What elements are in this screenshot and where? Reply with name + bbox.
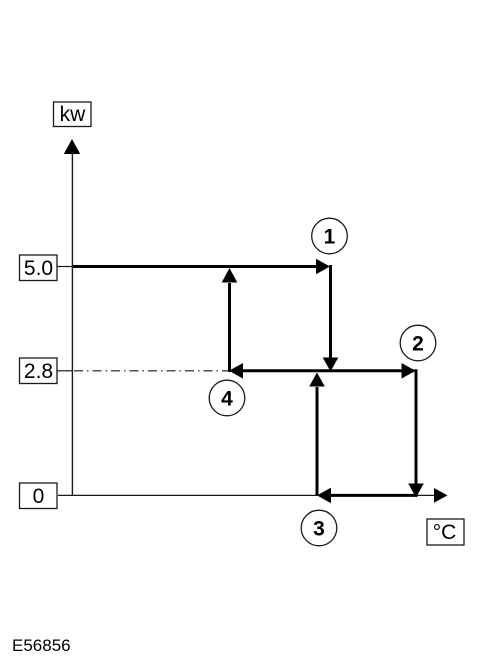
label box kw	[54, 102, 92, 127]
label box 5.0	[20, 255, 58, 281]
segment A: 5.0 level line to point 1	[72, 265, 317, 268]
svg-text:kw: kw	[60, 103, 87, 126]
svg-text:4: 4	[221, 388, 233, 411]
arrowhead right at point 2	[402, 363, 416, 379]
tick 2.8	[57, 370, 73, 372]
arrowhead up below 2.8 line	[309, 373, 325, 387]
segment C: 2.8 level line from point 2 to point 4	[242, 369, 414, 372]
node circle 2	[400, 325, 436, 361]
node circle 1	[312, 218, 348, 254]
svg-text:2.8: 2.8	[24, 360, 53, 383]
segment E: down from point 2 to x-axis	[415, 369, 418, 484]
arrowhead right at point 1	[316, 259, 330, 275]
svg-text:E56856: E56856	[12, 636, 71, 655]
label box 2.8	[20, 358, 58, 384]
svg-text:5.0: 5.0	[24, 257, 53, 280]
arrowhead up below 5.0 line	[222, 268, 238, 283]
segment B: down from point 1 to 2.8 line	[329, 265, 332, 358]
x-axis arrowhead	[434, 488, 448, 503]
segment G: x-axis run from point 2 to point 3	[331, 494, 418, 497]
svg-text:2: 2	[412, 333, 424, 356]
segment D: up from point 4 to 5.0 line	[228, 283, 231, 372]
svg-text:1: 1	[324, 226, 336, 249]
x-axis	[58, 494, 437, 496]
dash-dot line 2.8 level	[74, 370, 228, 372]
svg-text:3: 3	[313, 518, 325, 541]
svg-text:0: 0	[33, 485, 45, 508]
svg-text:°C: °C	[433, 521, 457, 544]
segment F: up from point 3 to 2.8 line	[316, 387, 319, 495]
arrowhead left at point 4	[229, 363, 243, 379]
y-axis	[71, 152, 73, 496]
label box °C	[427, 519, 464, 545]
arrowhead left at point 3	[317, 488, 331, 504]
arrowhead down at x-axis	[408, 484, 424, 498]
tick 5.0	[57, 266, 72, 268]
node circle 4	[209, 380, 245, 416]
node circle 3	[301, 510, 337, 546]
y-axis arrowhead	[64, 139, 80, 154]
label box 0	[20, 483, 58, 509]
arrowhead down at 2.8 line	[323, 358, 339, 372]
